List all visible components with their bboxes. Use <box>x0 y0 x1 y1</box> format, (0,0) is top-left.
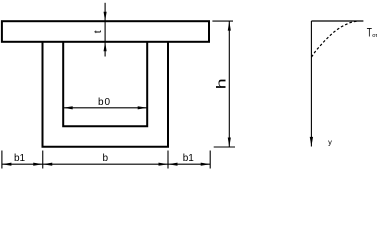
extension line under right wall <box>167 151 169 169</box>
graph dashed curve <box>312 21 359 57</box>
dimension b arrow right <box>159 163 169 166</box>
dimension t arrow bottom <box>104 42 107 52</box>
h extension line bottom <box>214 146 235 148</box>
box inner cavity outline <box>63 42 147 126</box>
box outer walls and bottom <box>43 42 169 147</box>
graph y axis <box>310 21 312 147</box>
dimension b1 right arrow right <box>201 163 211 166</box>
dimension b0 arrow left <box>63 106 72 109</box>
dimension h line <box>228 21 230 147</box>
svg-text:t: t <box>92 30 104 33</box>
svg-text:b1: b1 <box>14 153 26 164</box>
dimension h arrow top <box>228 21 231 31</box>
h extension line top <box>212 20 233 22</box>
extension line right flange edge <box>209 151 211 169</box>
top flange outline <box>2 21 209 42</box>
svg-text:b: b <box>103 153 109 164</box>
dimension b1 right arrow left <box>168 163 178 166</box>
svg-text:h: h <box>214 78 229 89</box>
svg-text:b1: b1 <box>183 153 195 164</box>
svg-text:от: от <box>372 33 377 39</box>
dimension b1 left arrow left <box>2 163 12 166</box>
svg-text:b0: b0 <box>98 97 111 108</box>
graph top line <box>311 20 363 22</box>
dimension t arrow top <box>104 12 107 22</box>
dimension b0 line <box>63 107 147 109</box>
bottom dimension line b1 b b1 <box>2 163 210 165</box>
extension line left flange edge <box>1 151 3 169</box>
dimension b0 arrow right <box>138 106 148 109</box>
dimension h arrow bottom <box>228 138 231 148</box>
extension line under left wall <box>42 151 44 169</box>
svg-text:y: y <box>328 138 332 147</box>
dimension t line <box>104 3 106 57</box>
dimension b1 left arrow right <box>33 163 43 166</box>
dimension b arrow left <box>43 163 53 166</box>
graph y axis arrow <box>310 137 313 147</box>
